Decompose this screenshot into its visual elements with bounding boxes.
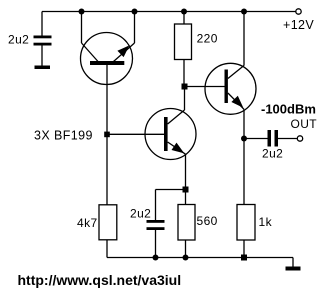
capacitor C1 2u2 top lead xyxy=(41,12,43,36)
resistor R3 560 top lead xyxy=(185,154,187,205)
node dot Q2 emitter junction xyxy=(183,187,189,193)
capacitor C3 right wire xyxy=(278,138,297,140)
wire Q3 emitter vertical down to R4 xyxy=(243,109,245,204)
svg-text:http://www.qsl.net/va3iul: http://www.qsl.net/va3iul xyxy=(18,272,182,288)
node dot R3 at bottom rail xyxy=(183,255,189,261)
capacitor C3 2u2 plates xyxy=(268,130,279,147)
terminal +12V open circle xyxy=(296,9,301,14)
node dot R4 at bottom rail xyxy=(241,255,247,261)
resistor R2 4k7 bottom lead xyxy=(106,240,108,258)
svg-text:2u2: 2u2 xyxy=(262,147,283,161)
resistor R4 1k body xyxy=(237,205,255,241)
capacitor C1 bottom lead xyxy=(41,46,43,66)
svg-text:3X BF199: 3X BF199 xyxy=(34,129,93,143)
wire base link Q1 to Q2 xyxy=(107,133,164,135)
svg-text:-100dBm: -100dBm xyxy=(261,102,316,117)
svg-text:+12V: +12V xyxy=(283,18,314,32)
node dot Q3 collector at rail xyxy=(241,9,247,15)
resistor R1 220 top lead xyxy=(183,12,185,25)
node dot output junction xyxy=(241,136,247,142)
capacitor C2 bottom lead xyxy=(155,230,157,258)
wire Q1 collector lead xyxy=(81,12,83,44)
resistor R3 560 bottom lead xyxy=(185,240,187,258)
svg-text:2u2: 2u2 xyxy=(130,207,151,221)
svg-text:1k: 1k xyxy=(259,215,273,229)
terminal OUT open circle xyxy=(297,136,302,141)
wire ground drop xyxy=(292,258,294,267)
wire bottom rail xyxy=(107,257,293,259)
ground bottom right xyxy=(286,267,301,271)
svg-text:OUT: OUT xyxy=(291,117,318,131)
transistor Q3 BF199 xyxy=(205,63,256,114)
wire base link to Q3 xyxy=(185,86,225,88)
node dot C2 at bottom rail xyxy=(153,255,159,261)
svg-text:560: 560 xyxy=(197,214,218,228)
wire emitter junction to C2 xyxy=(156,189,186,191)
ground under C1 xyxy=(35,66,51,70)
svg-text:4k7: 4k7 xyxy=(77,216,98,230)
wire top +12V rail xyxy=(42,11,296,13)
svg-text:220: 220 xyxy=(197,31,218,45)
node dot R1 bottom junction xyxy=(182,84,188,90)
node dot Q1 collector at rail xyxy=(79,9,85,15)
transistor Q2 BF199 xyxy=(145,109,196,160)
resistor R2 4k7 body xyxy=(99,205,117,240)
capacitor C1 2u2 plates xyxy=(34,36,52,46)
wire Q1 emitter lead xyxy=(134,12,136,44)
capacitor C2 2u2 plates xyxy=(147,220,165,230)
wire Q3 collector vertical xyxy=(243,12,245,66)
wire Q2 collector vertical xyxy=(184,87,186,111)
svg-text:2u2: 2u2 xyxy=(8,33,29,47)
transistor Q1 BF199 xyxy=(81,33,135,85)
resistor R1 220 bottom lead xyxy=(183,60,185,87)
capacitor C3 2u2 left wire xyxy=(244,138,268,140)
node dot base junction xyxy=(104,132,110,138)
node dot Q1 emitter at rail xyxy=(132,9,138,15)
resistor R3 560 body xyxy=(178,205,195,241)
wire Q1 base lead down to R2 xyxy=(106,65,108,205)
resistor R1 220 body xyxy=(175,24,192,60)
resistor R4 1k bottom lead xyxy=(243,240,245,258)
node dot R1 top at rail xyxy=(181,9,187,15)
wire C2 top lead xyxy=(155,190,157,221)
